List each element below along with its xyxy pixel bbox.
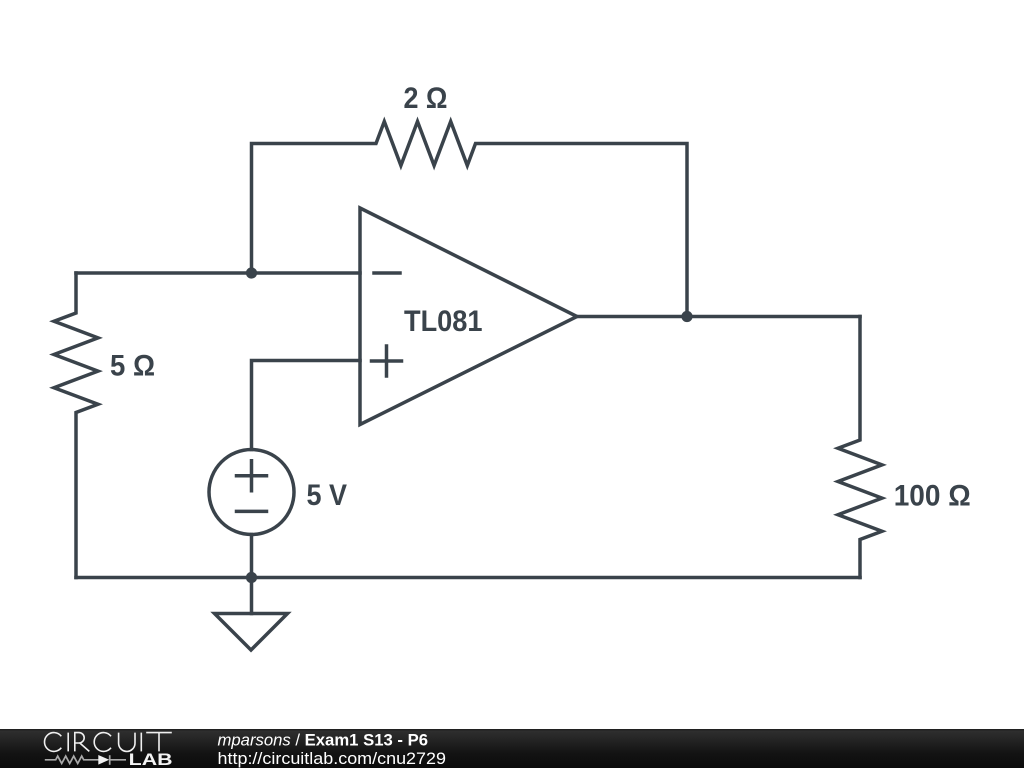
svg-text:TL081: TL081 — [404, 305, 483, 338]
svg-text:100 Ω: 100 Ω — [894, 479, 971, 512]
svg-text:http://circuitlab.com/cnu2729: http://circuitlab.com/cnu2729 — [218, 749, 447, 768]
svg-text:mparsons / Exam1 S13 - P6: mparsons / Exam1 S13 - P6 — [218, 731, 429, 750]
svg-text:5 V: 5 V — [307, 479, 348, 512]
svg-text:LAB: LAB — [129, 750, 173, 768]
svg-text:5 Ω: 5 Ω — [110, 350, 155, 383]
svg-text:2 Ω: 2 Ω — [404, 82, 448, 115]
